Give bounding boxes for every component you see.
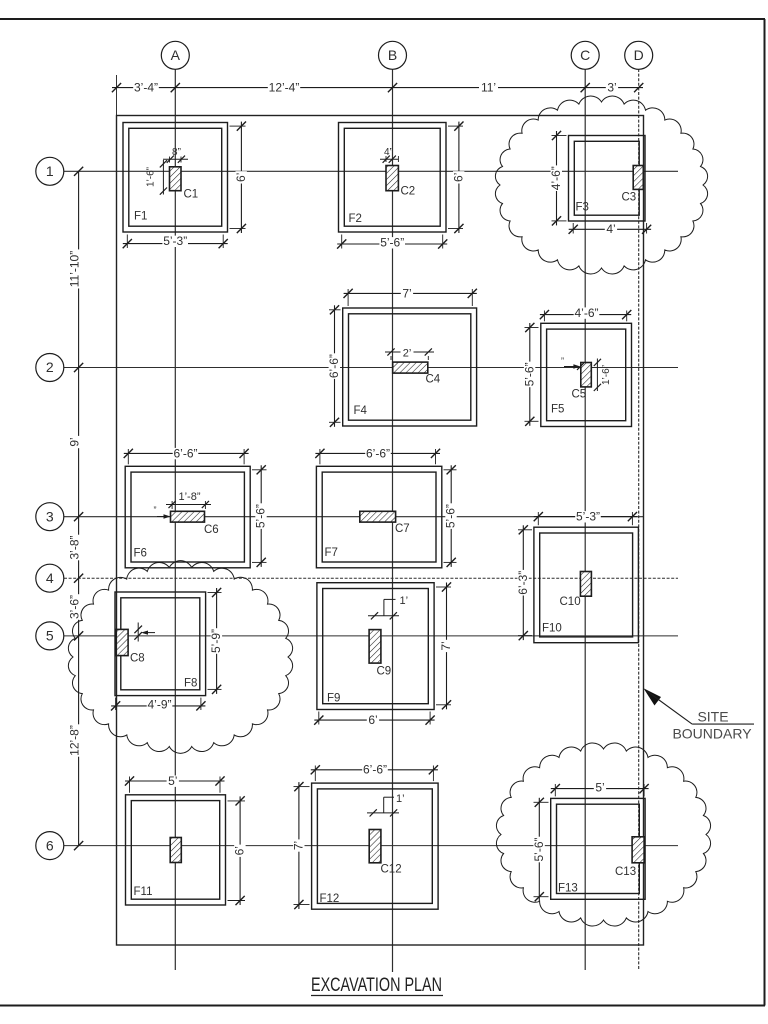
left dimension string [67, 167, 83, 851]
svg-text:5’-3”: 5’-3” [163, 234, 187, 248]
svg-text:C8: C8 [130, 653, 145, 665]
svg-text:1’: 1’ [400, 595, 409, 607]
svg-text:C10: C10 [560, 596, 581, 608]
svg-text:C9: C9 [377, 666, 392, 678]
dimension 5-3 F1 [126, 235, 128, 249]
svg-text:9’: 9’ [67, 437, 81, 446]
grid bubble C [571, 41, 599, 69]
svg-text:F3: F3 [576, 202, 589, 214]
svg-text:7’: 7’ [439, 641, 453, 650]
dimension 5-6 F13 left [534, 801, 549, 803]
footing F10 [534, 527, 639, 643]
svg-text:5’-6”: 5’-6” [444, 504, 458, 528]
dimension 6 F1 right [230, 125, 246, 127]
svg-text:11’-10”: 11’-10” [67, 251, 81, 287]
svg-text:5’-6”: 5’-6” [254, 504, 268, 528]
svg-text:6’: 6’ [451, 173, 465, 182]
svg-text:5: 5 [46, 628, 54, 644]
svg-text:6’-3”: 6’-3” [516, 571, 530, 595]
svg-text:6: 6 [46, 837, 54, 853]
column C5 [581, 363, 592, 387]
svg-text:F10: F10 [542, 623, 562, 635]
svg-text:12’-8”: 12’-8” [67, 725, 81, 756]
column C7 [360, 511, 396, 522]
svg-text:5’-6”: 5’-6” [532, 837, 546, 861]
svg-text:F8: F8 [184, 678, 197, 690]
svg-text:F2: F2 [349, 213, 362, 225]
grid bubble 5 [36, 622, 64, 650]
grid line A [174, 69, 176, 970]
footing F13 [551, 798, 645, 899]
svg-text:4’-9”: 4’-9” [147, 698, 171, 712]
column C13 [632, 837, 644, 863]
grid bubble B [379, 41, 407, 69]
site boundary leader arrow [644, 688, 755, 724]
svg-text:”: ” [154, 505, 157, 515]
dimension 2 C4 [385, 351, 434, 353]
svg-text:F4: F4 [354, 405, 368, 417]
svg-text:A: A [171, 47, 181, 63]
grid line 2 [64, 367, 678, 369]
dimension 4in C8 [137, 623, 139, 642]
dimension 4 F3 bottom [572, 223, 574, 234]
svg-text:F5: F5 [551, 404, 564, 416]
dimension 5 F11 top [129, 777, 131, 793]
svg-text:6’: 6’ [234, 173, 248, 182]
footing F2 [339, 123, 447, 233]
grid bubble 1 [36, 157, 64, 185]
dimension 5 F13 top [554, 784, 556, 796]
svg-text:3’-4”: 3’-4” [134, 81, 158, 95]
svg-text:4’-6”: 4’-6” [549, 166, 563, 190]
svg-text:6’: 6’ [233, 846, 247, 855]
svg-text:5’-9”: 5’-9” [209, 629, 223, 653]
footing F11 [126, 795, 226, 905]
dimension 5-6 F2 [341, 235, 343, 249]
sheet border right [764, 19, 766, 1006]
dimension 1ft C12 [383, 797, 385, 813]
column C3 [633, 166, 643, 190]
svg-text:8”: 8” [172, 147, 181, 158]
grid bubble 4 [36, 564, 64, 592]
svg-text:1’-6”: 1’-6” [146, 167, 157, 187]
svg-text:1’-8”: 1’-8” [178, 491, 200, 503]
svg-text:F11: F11 [134, 886, 153, 898]
dimension 4-6 F3 left [552, 135, 567, 137]
dimension 6-6 F4 left [329, 309, 341, 311]
svg-text:1: 1 [46, 163, 54, 179]
svg-text:1’-6”: 1’-6” [601, 365, 612, 385]
dimension 1-6 C1 [162, 160, 164, 195]
svg-text:12’-4”: 12’-4” [269, 81, 300, 95]
sheet border top [0, 18, 765, 20]
svg-text:7’: 7’ [402, 286, 411, 300]
svg-text:C4: C4 [426, 374, 441, 386]
column C12 [369, 830, 381, 863]
svg-text:2: 2 [46, 359, 54, 375]
svg-text:C6: C6 [204, 524, 219, 536]
svg-text:C13: C13 [615, 866, 636, 878]
svg-text:D: D [634, 47, 644, 63]
dimension 4in C2 [385, 156, 387, 162]
grid line 5 [64, 635, 678, 637]
svg-text:F7: F7 [325, 547, 338, 559]
svg-text:F6: F6 [134, 548, 147, 560]
dimension 5-6 F7 right [444, 469, 457, 471]
footing F3 [569, 136, 646, 222]
svg-text:6’-6”: 6’-6” [327, 354, 341, 378]
svg-text:2’: 2’ [403, 347, 412, 359]
dimension 5-6 F6 right [252, 469, 267, 471]
svg-text:F9: F9 [327, 693, 340, 705]
column C2 [386, 166, 398, 191]
svg-text:3’-8”: 3’-8” [67, 535, 81, 559]
dimension 6 F11 right [228, 800, 246, 802]
svg-text:”: ” [561, 356, 564, 366]
grid line 6 [64, 845, 678, 847]
footing F7 [316, 466, 441, 568]
dimension 1-6 C5 [596, 359, 598, 392]
grid line D [638, 69, 640, 970]
footing F4 [343, 308, 477, 426]
revision cloud F3 [495, 96, 707, 274]
column C11 [170, 838, 181, 863]
svg-text:4’: 4’ [606, 222, 615, 236]
svg-text:F12: F12 [320, 893, 340, 905]
column C1 [170, 167, 182, 191]
dimension 6-6 F7 top [319, 449, 321, 464]
dimension 5-6 F5 left [525, 327, 539, 329]
svg-text:4’-6”: 4’-6” [574, 306, 598, 320]
dimension 7 F4 top [347, 289, 349, 306]
svg-text:SITE: SITE [697, 709, 728, 725]
grid line 1 [64, 170, 678, 172]
footing F12 [312, 783, 439, 909]
dimension 6 F2 right [448, 125, 463, 127]
dimension 7 F9 right [436, 586, 451, 588]
column C4 [393, 362, 428, 373]
dimension 6-6 F6 top [127, 449, 129, 464]
column C6 [171, 511, 205, 522]
svg-text:11’: 11’ [481, 81, 496, 95]
footing F8 [115, 592, 206, 696]
dimension 6-3 F10 left [518, 529, 532, 531]
svg-text:3: 3 [46, 508, 54, 524]
svg-text:5’-6”: 5’-6” [380, 236, 404, 250]
site boundary outline [117, 116, 644, 946]
svg-text:3’-6”: 3’-6” [67, 595, 81, 619]
svg-text:C1: C1 [184, 189, 199, 201]
svg-text:7’: 7’ [291, 841, 305, 850]
svg-text:C5: C5 [572, 389, 587, 401]
dimension 8in C1 [169, 157, 171, 163]
dimension 4-6 F5 top [543, 311, 545, 322]
grid bubble D [625, 41, 653, 69]
dimension 4in C6 [157, 516, 168, 518]
top dimension string [112, 75, 643, 115]
grid bubble A [161, 41, 189, 69]
grid line 4 [64, 577, 678, 579]
svg-text:C: C [580, 47, 590, 63]
svg-text:B: B [388, 47, 397, 63]
dimension 6-6 F12 top [314, 766, 316, 782]
sheet border bottom [0, 1005, 765, 1007]
dimension 6 F9 bottom [318, 712, 320, 725]
svg-text:C12: C12 [381, 864, 402, 876]
footing F1 [123, 123, 228, 233]
svg-text:6’: 6’ [368, 713, 377, 727]
svg-text:C7: C7 [395, 523, 410, 535]
grid line 3 [64, 516, 644, 518]
svg-text:4: 4 [46, 570, 54, 586]
footing F5 [541, 323, 632, 426]
svg-text:F13: F13 [558, 883, 578, 895]
svg-text:C3: C3 [622, 192, 637, 204]
svg-text:5’-3”: 5’-3” [576, 510, 600, 524]
column C8 [116, 629, 128, 655]
column C9 [369, 630, 381, 664]
grid line C [584, 69, 586, 970]
svg-text:C2: C2 [401, 186, 416, 198]
grid bubble 3 [36, 503, 64, 531]
footing F9 [317, 583, 434, 710]
grid bubble 2 [36, 354, 64, 382]
svg-text:1’: 1’ [396, 793, 405, 805]
grid line B [392, 69, 394, 972]
column C10 [580, 572, 591, 597]
dimension 7 F12 left [294, 786, 310, 788]
title EXCAVATION PLAN [311, 975, 443, 996]
dimension 5-9 F8 right [208, 592, 222, 594]
svg-text:5’: 5’ [595, 780, 604, 794]
svg-text:F1: F1 [134, 211, 147, 223]
svg-text:5’: 5’ [168, 774, 177, 788]
dimension 4-9 F8 bottom [115, 698, 117, 710]
svg-text:5’-6”: 5’-6” [522, 362, 536, 386]
svg-text:6’-6”: 6’-6” [363, 763, 387, 777]
revision cloud F8 [68, 561, 292, 754]
footing F6 [125, 466, 250, 568]
svg-text:6’-6”: 6’-6” [173, 446, 197, 460]
svg-text:4”: 4” [384, 147, 393, 158]
dimension 1ft C9 [383, 599, 385, 615]
dimension 1-8 C6 [171, 501, 173, 509]
svg-text:EXCAVATION PLAN: EXCAVATION PLAN [311, 975, 442, 996]
grid bubble 6 [36, 832, 64, 860]
svg-text:3’: 3’ [607, 81, 616, 95]
dimension 5-3 F10 top [537, 512, 539, 525]
dimension 8in C5 [564, 366, 578, 368]
revision cloud F13 [496, 743, 710, 926]
svg-text:BOUNDARY: BOUNDARY [672, 726, 752, 742]
svg-text:6’-6”: 6’-6” [366, 446, 390, 460]
